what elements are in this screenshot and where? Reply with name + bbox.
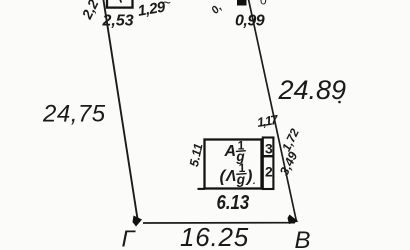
svg-text:0: 0: [260, 0, 267, 8]
svg-text:~: ~: [163, 0, 171, 11]
svg-text:3: 3: [265, 141, 273, 157]
svg-text:2,53: 2,53: [102, 13, 134, 30]
svg-text:g: g: [236, 172, 246, 187]
svg-text:6.13: 6.13: [217, 190, 250, 213]
svg-text:В: В: [295, 227, 311, 250]
svg-text:Λ: Λ: [225, 168, 236, 185]
svg-text:.: .: [253, 171, 257, 187]
svg-text:0,99: 0,99: [235, 13, 265, 30]
svg-text:2: 2: [265, 164, 273, 180]
svg-text:A: A: [224, 143, 237, 160]
svg-text:24,75: 24,75: [42, 101, 106, 128]
svg-text:16.25: 16.25: [180, 222, 249, 250]
svg-text:Г: Г: [122, 226, 137, 250]
svg-text:): ): [245, 167, 253, 186]
svg-text:24.89: 24.89: [278, 75, 347, 105]
